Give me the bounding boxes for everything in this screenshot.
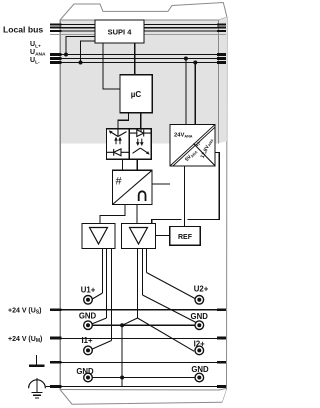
wire ADC to DCDC [152,183,170,185]
svg-text:SUPI 4: SUPI 4 [108,28,133,37]
wire SUPI to uC top [134,43,136,75]
svg-text:Local bus: Local bus [3,25,43,35]
bus line 3 [50,30,226,32]
junction on UL- [79,61,83,65]
wire DCDC to amp right (wrap) [152,153,220,224]
svg-text:+24 V (US): +24 V (US) [8,308,42,316]
bottom band outline [60,389,227,391]
converter ADC [113,170,153,204]
optocoupler U2 [106,129,151,160]
amplifier right [122,224,156,249]
bottom band [60,389,227,405]
wire UL- [50,61,226,64]
FE ground symbol [29,378,46,398]
module right edge [222,17,227,402]
bus line 2 [50,27,226,29]
wire GND link horizontal [92,324,195,326]
side face [219,17,228,402]
svg-text:+24 V (UM): +24 V (UM) [8,336,42,344]
chip SUPI 4 [95,20,144,43]
wire SUPI to uC left [103,43,120,89]
wire uC to opto right [140,113,142,129]
terminal GND bottom right [191,365,209,382]
wire UL+ [50,53,226,56]
wire L3 to I1+ [111,249,113,341]
opto right light arrows (down) [136,139,144,146]
side face top edge [219,17,228,20]
rail FE ground [46,386,226,388]
wire L1 to U1+ [102,249,104,294]
wire R3 to U2+ [146,249,148,273]
wire GND2 horizontal [92,377,195,379]
opto right phototransistor [133,148,150,155]
top face [60,3,227,21]
junction on UL+ [64,53,68,57]
svg-text:I1+: I1+ [81,336,93,345]
svg-text:GND: GND [191,312,209,321]
chip uC [120,75,152,113]
wire SUPI to UL+ [66,36,95,54]
shaded bus-interface band [61,17,228,389]
wire L2 to GND1 [106,249,108,319]
wire UANA to DCDC [185,59,187,125]
bus line 1 [50,23,226,25]
opto left phototransistor [109,129,127,137]
wire R1 to GND junction and I2+ [122,249,194,352]
earth symbol [29,355,45,366]
terminal GND right [191,312,209,330]
opto right LED [129,129,151,137]
top face outline with profile notch [60,3,227,21]
wire opto to ADC left [121,159,123,170]
wire UL- to DCDC [194,63,196,125]
svg-text:#: # [116,176,123,188]
wire UANA [50,57,226,60]
converter DC/DC 24V [170,125,215,167]
terminal I2+ [194,340,206,355]
wire DCDC to REF [184,166,186,227]
svg-text:U1+: U1+ [81,286,96,295]
wire uC to opto left [118,113,129,129]
wire R2 to GND right [142,249,144,296]
svg-text:GND: GND [79,311,97,320]
terminal GND left [79,311,97,329]
wire ADC to amp right [136,205,138,224]
front face left edge [59,20,61,390]
junction GND mid [120,323,124,327]
svg-text:U2+: U2+ [194,285,209,294]
opto left LED [106,149,129,156]
terminal I1+ [81,336,93,355]
wire amp right to REF [156,235,170,237]
svg-text:UL-: UL- [30,57,40,66]
rail +24V US [50,309,226,311]
junction on UL- right [193,61,197,65]
bus line 4 (faint) [50,33,226,35]
amplifier left [82,224,115,249]
terminal GND bottom left [76,367,94,382]
junction on UANA [184,57,188,61]
opto left light arrows (up) [114,137,122,144]
chip REF [170,227,201,246]
wire SUPI to UL- [81,41,96,63]
rail +24V UM [50,337,226,340]
svg-text:µC: µC [131,90,142,99]
wire opto to ADC right [136,159,138,170]
module housing 3D [60,3,227,405]
wire ADC to amp left [100,205,125,224]
wire GND link vertical [121,325,123,386]
svg-text:REF: REF [178,234,193,241]
rail earth [50,361,226,363]
terminal U1+ [81,286,96,305]
junction GND bottom [120,376,124,380]
terminal U2+ [194,285,209,305]
